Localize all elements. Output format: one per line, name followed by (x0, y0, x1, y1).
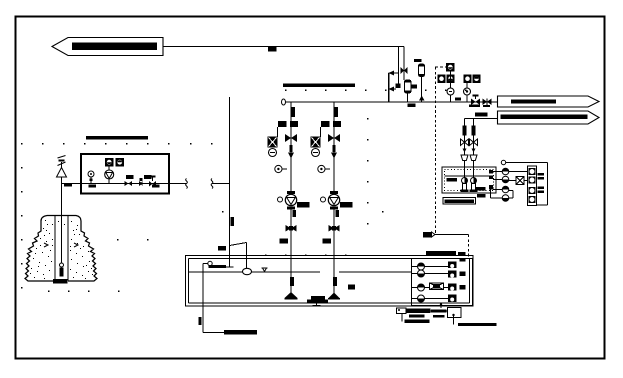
analyzer pair AI2 (438, 75, 455, 84)
check valve CV2 (125, 181, 129, 186)
arrow down A (288, 153, 294, 159)
wire into arrow W3 (465, 118, 498, 120)
below tank piping (397, 303, 497, 326)
valve VB1 (328, 134, 334, 142)
gauge B (318, 165, 330, 172)
pipeline arrow W3 (to network) (498, 111, 600, 124)
valve V13 with actuator (149, 176, 160, 188)
wires T2 to pump battery (493, 171, 502, 173)
flanged fitting B (321, 121, 330, 127)
well pump (53, 263, 68, 284)
wire: main supply line top (163, 46, 404, 48)
treatment train B (333, 102, 335, 194)
outlet stubs of T2 (489, 170, 493, 174)
label plate under T2 (443, 198, 476, 205)
plant title bar (283, 84, 355, 88)
well stipple (30, 220, 93, 279)
pipe through dosing box (62, 183, 187, 185)
dosing room box (81, 154, 169, 194)
drain train D1 (461, 119, 469, 161)
water level line (189, 271, 321, 273)
black block in tank (348, 285, 355, 290)
train A riser (290, 102, 292, 194)
treatment train A (282, 73, 390, 105)
tick A (293, 210, 296, 217)
bar label below line (408, 104, 416, 108)
vent VP1 (57, 156, 67, 178)
tick on line (455, 98, 461, 101)
analyzer AI1 (446, 63, 455, 72)
wire funnels to tank (464, 161, 466, 168)
manifold box MB1 (528, 166, 537, 206)
valve VB2 (329, 225, 335, 232)
sump pump P3 (461, 167, 469, 192)
pump PB (321, 191, 353, 210)
valve V10 (401, 67, 405, 74)
wire battery top (506, 162, 548, 164)
dashed signal line S1 (435, 67, 437, 234)
grid dots (21, 90, 466, 292)
pipeline arrow W1 (outgoing, points left) (52, 38, 163, 56)
flanged fitting A (278, 121, 287, 127)
bar in tank T2 (476, 187, 486, 191)
black square below T2 (477, 194, 486, 198)
sump assembly in tank (307, 296, 328, 307)
gauge PI1 (450, 72, 452, 89)
analyzer pair AI3 (464, 75, 481, 84)
chamber mixer X1 (430, 283, 444, 290)
elbow tick B (323, 239, 332, 244)
tick label on supply line (268, 47, 277, 52)
wire vent to well (61, 177, 63, 263)
mixer M1 (509, 177, 528, 185)
dosing pump P5 (105, 167, 114, 184)
instrument branch A (268, 127, 278, 157)
well mound (25, 216, 97, 282)
gauge A (275, 165, 287, 172)
bell mouth B (328, 256, 340, 299)
dosing room label bar (86, 136, 148, 139)
valve VA2 (286, 225, 292, 232)
bell mouth A (285, 256, 298, 299)
reservoir tank T1 (186, 256, 474, 307)
elbow tick A (280, 239, 289, 244)
level marker (262, 268, 268, 272)
chamber pumps CP1-CP4 (412, 263, 425, 302)
gauge PI3 (88, 171, 96, 188)
junction block (396, 84, 401, 89)
valve VA1 (285, 134, 291, 142)
node circle (501, 160, 505, 164)
signal end block (423, 232, 431, 238)
strata arrows in mound (44, 243, 48, 247)
pump PA (278, 191, 310, 210)
tick B (336, 210, 339, 217)
pipe break symbols (186, 179, 188, 189)
pipeline arrow W2 (to network) (498, 96, 600, 107)
outlet ticks (460, 272, 466, 277)
drain train D2 (470, 119, 478, 161)
filter F1 (414, 59, 422, 62)
manifold ticks (538, 173, 545, 176)
arrow down B (331, 153, 337, 159)
booster pumps B1-B4 (502, 168, 509, 201)
pump chamber PC1 (412, 259, 473, 306)
bar labels in box (126, 175, 134, 179)
arrow up on line (419, 96, 425, 101)
valve V12 (139, 181, 143, 186)
gauge PI2 (466, 83, 468, 88)
chamber links (425, 266, 449, 268)
suction inlet (203, 261, 226, 268)
riser pipe R1 (229, 97, 231, 267)
wire: down pipes from supply (398, 47, 400, 84)
check valve CV1 (483, 99, 492, 108)
valve V11 with actuator (469, 95, 480, 108)
T end in tank (226, 266, 234, 268)
sump pump P4 (470, 167, 478, 192)
instrument squares IQ1 (105, 158, 124, 167)
drain tank T2 (442, 167, 496, 193)
softener U1 (405, 80, 412, 93)
float valve FV1 (243, 268, 252, 274)
wire: treated water line to arrow (389, 101, 498, 103)
node arrows left (389, 72, 399, 74)
outlet pipe down-left (202, 264, 204, 333)
chamber outlet blocks OB1-OB4 (448, 262, 457, 303)
instrument branch B (311, 127, 321, 157)
wire battery links (509, 171, 528, 173)
pump chamber bar label (426, 251, 456, 256)
tank feed tick (218, 246, 226, 251)
